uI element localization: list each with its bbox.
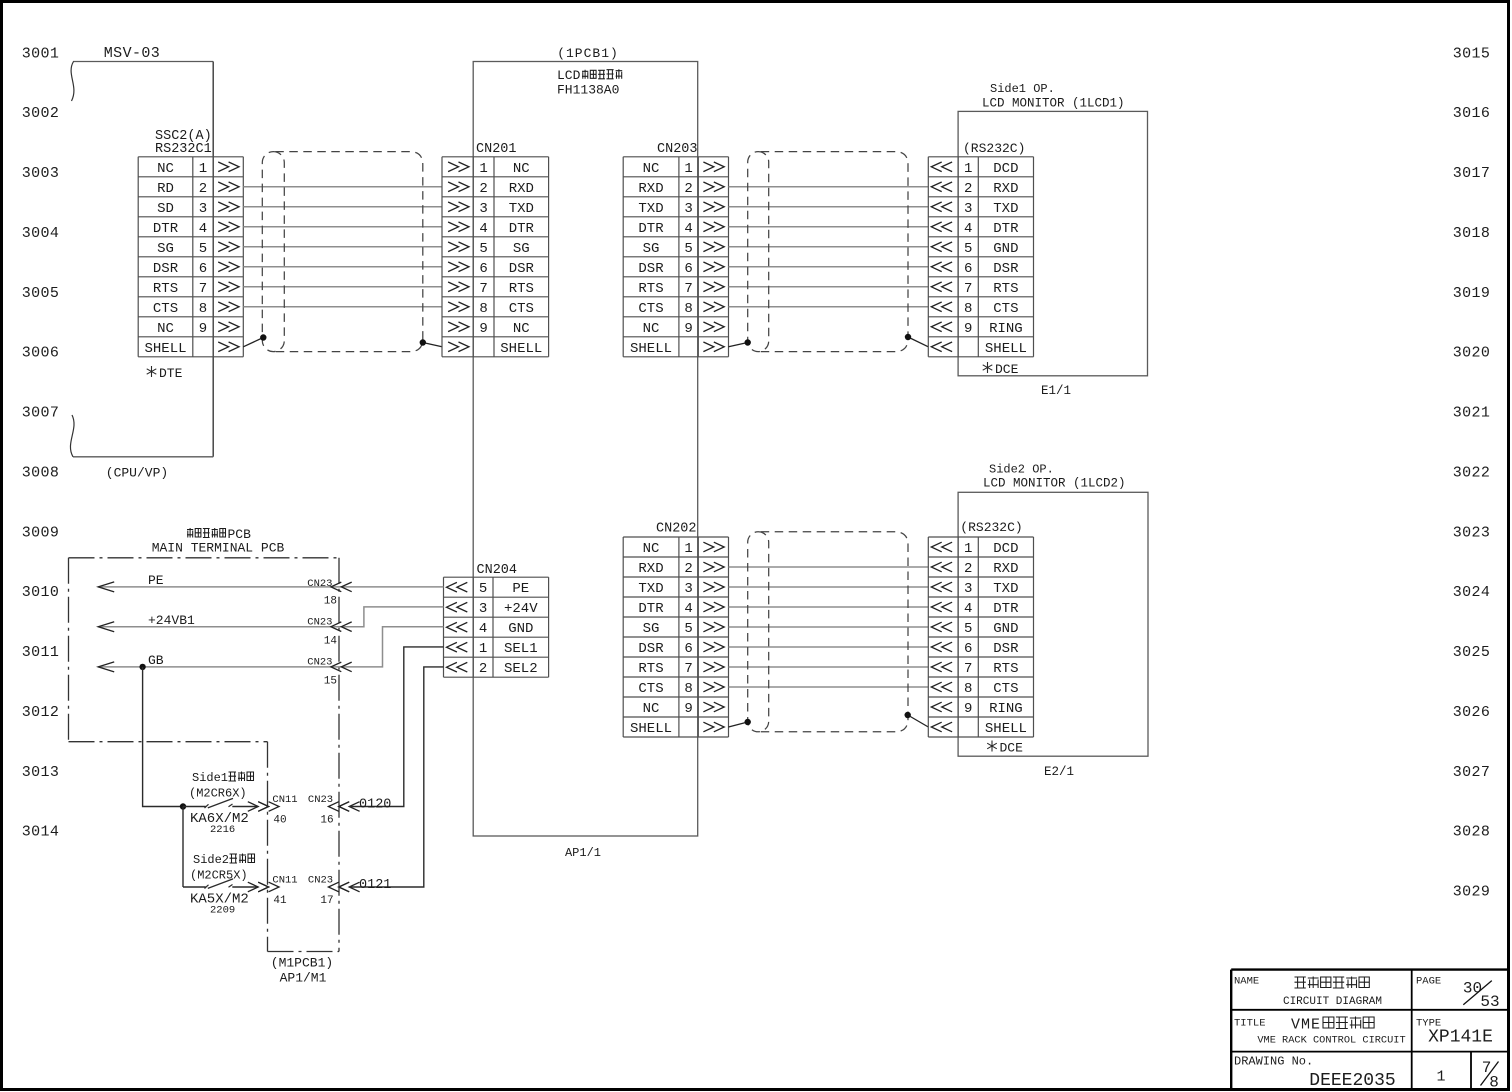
box Side2 OP. LCD MONITOR (1LCD2) (958, 463, 1148, 780)
svg-text:6: 6 (964, 261, 972, 277)
wires SSC2 pins 2-8 to CN201 (243, 187, 442, 307)
svg-text:CN202: CN202 (656, 522, 697, 537)
svg-text:DTR: DTR (153, 221, 179, 237)
svg-text:DCD: DCD (993, 161, 1018, 177)
svg-text:2: 2 (964, 181, 972, 197)
svg-text:NC: NC (513, 161, 530, 177)
svg-text:SG: SG (513, 241, 530, 257)
svg-text:2: 2 (684, 181, 692, 197)
svg-text:TXD: TXD (993, 581, 1018, 597)
svg-text:CN23: CN23 (308, 875, 333, 887)
svg-text:2216: 2216 (210, 824, 235, 836)
svg-text:SHELL: SHELL (144, 341, 186, 357)
wires CN203 pins 2-8 to 1LCD1 RS232C (729, 187, 929, 307)
svg-text:3003: 3003 (22, 165, 60, 182)
svg-text:RTS: RTS (509, 281, 534, 297)
connector CN202 table (623, 522, 728, 738)
svg-text:3: 3 (479, 201, 487, 217)
svg-text:0121: 0121 (359, 878, 391, 893)
svg-text:3002: 3002 (22, 105, 60, 122)
svg-text:DSR: DSR (509, 261, 535, 277)
svg-text:DSR: DSR (993, 261, 1019, 277)
svg-text:9: 9 (964, 701, 972, 717)
svg-text:1: 1 (1436, 1069, 1445, 1086)
svg-text:TITLE: TITLE (1234, 1018, 1266, 1030)
svg-text:3025: 3025 (1453, 644, 1491, 661)
svg-text:SHELL: SHELL (630, 341, 672, 357)
svg-text:TXD: TXD (993, 201, 1018, 217)
svg-text:1: 1 (479, 641, 487, 657)
svg-text:3005: 3005 (22, 285, 60, 302)
svg-text:3017: 3017 (1453, 165, 1491, 182)
svg-text:TXD: TXD (509, 201, 534, 217)
svg-text:MSV-03: MSV-03 (104, 45, 160, 62)
svg-text:17: 17 (320, 895, 333, 907)
svg-text:+24V: +24V (504, 601, 538, 617)
relay contact KA5X/M2 (M2CR5X) Side2 (190, 853, 255, 917)
svg-text:3: 3 (964, 581, 972, 597)
svg-text:CN23: CN23 (307, 657, 332, 669)
shielded cable between SSC2 and CN201 (243, 152, 442, 352)
svg-text:E2/1: E2/1 (1044, 765, 1074, 779)
svg-text:AP1/1: AP1/1 (565, 846, 601, 860)
svg-text:40: 40 (273, 815, 286, 827)
svg-text:2209: 2209 (210, 905, 235, 917)
svg-text:SEL1: SEL1 (504, 641, 538, 657)
label *DCE of 1LCD1 (983, 362, 1019, 377)
left margin zone numbers 3001-3014 (22, 45, 60, 840)
svg-text:3016: 3016 (1453, 105, 1491, 122)
svg-text:NC: NC (643, 701, 660, 717)
svg-text:FH1138A0: FH1138A0 (557, 83, 619, 98)
svg-text:1: 1 (479, 161, 487, 177)
svg-text:0120: 0120 (359, 798, 391, 813)
svg-text:VME: VME (1291, 1017, 1321, 1034)
svg-text:1: 1 (684, 541, 692, 557)
svg-text:3014: 3014 (22, 824, 60, 841)
svg-text:2: 2 (479, 181, 487, 197)
svg-text:3019: 3019 (1453, 285, 1491, 302)
svg-text:53: 53 (1480, 993, 1499, 1011)
svg-text:MAIN TERMINAL PCB: MAIN TERMINAL PCB (152, 541, 285, 556)
svg-text:NC: NC (643, 321, 660, 337)
svg-text:DCE: DCE (995, 362, 1019, 377)
svg-text:CN204: CN204 (477, 563, 518, 578)
svg-text:XP141E: XP141E (1428, 1028, 1493, 1048)
right margin zone numbers 3015-3029 (1453, 45, 1491, 900)
svg-text:3018: 3018 (1453, 225, 1491, 242)
svg-text:SHELL: SHELL (985, 721, 1027, 737)
box MSV-03 (CPU/VP) with break squiggles (70, 45, 213, 481)
svg-text:3027: 3027 (1453, 764, 1491, 781)
svg-text:SHELL: SHELL (500, 341, 542, 357)
svg-text:4: 4 (684, 221, 692, 237)
svg-text:VME RACK CONTROL CIRCUIT: VME RACK CONTROL CIRCUIT (1257, 1035, 1405, 1047)
svg-text:DCE: DCE (1000, 741, 1024, 756)
svg-text:DTR: DTR (993, 601, 1019, 617)
svg-text:9: 9 (964, 321, 972, 337)
svg-text:(1PCB1): (1PCB1) (557, 46, 619, 61)
svg-text:CIRCUIT DIAGRAM: CIRCUIT DIAGRAM (1283, 996, 1382, 1008)
svg-text:3: 3 (684, 581, 692, 597)
svg-text:8: 8 (199, 301, 207, 317)
svg-text:Side1: Side1 (192, 771, 228, 785)
svg-text:3021: 3021 (1453, 405, 1491, 422)
label (M1PCB1) AP1/M1 (271, 956, 333, 986)
svg-text:DEEE2035: DEEE2035 (1309, 1071, 1395, 1091)
svg-text:3013: 3013 (22, 764, 60, 781)
svg-text:3: 3 (964, 201, 972, 217)
svg-text:6: 6 (964, 641, 972, 657)
svg-text:CN11: CN11 (272, 875, 297, 887)
svg-text:4: 4 (964, 221, 972, 237)
svg-text:4: 4 (479, 621, 487, 637)
svg-text:RING: RING (989, 321, 1023, 337)
svg-text:NC: NC (643, 541, 660, 557)
svg-text:5: 5 (479, 581, 487, 597)
svg-text:3020: 3020 (1453, 345, 1491, 362)
svg-text:RXD: RXD (509, 181, 534, 197)
svg-text:6: 6 (684, 641, 692, 657)
svg-text:7: 7 (964, 281, 972, 297)
svg-text:DTR: DTR (509, 221, 535, 237)
svg-text:5: 5 (684, 241, 692, 257)
svg-text:5: 5 (684, 621, 692, 637)
svg-text:3006: 3006 (22, 345, 60, 362)
svg-text:(M2CR6X): (M2CR6X) (189, 787, 247, 801)
svg-text:16: 16 (320, 815, 333, 827)
svg-text:41: 41 (273, 895, 287, 907)
svg-text:3009: 3009 (22, 524, 60, 541)
svg-text:5: 5 (964, 241, 972, 257)
svg-text:8: 8 (684, 681, 692, 697)
svg-text:CN23: CN23 (308, 794, 333, 806)
svg-text:RTS: RTS (153, 281, 178, 297)
svg-text:DTR: DTR (638, 601, 664, 617)
svg-text:30: 30 (1463, 980, 1482, 998)
svg-text:3015: 3015 (1453, 45, 1491, 62)
svg-text:NC: NC (157, 321, 174, 337)
svg-text:Side2: Side2 (193, 853, 229, 867)
svg-text:CTS: CTS (638, 681, 663, 697)
svg-text:7: 7 (479, 281, 487, 297)
box MAIN TERMINAL PCB (chain line) (69, 527, 340, 952)
svg-text:3001: 3001 (22, 45, 60, 62)
svg-text:8: 8 (1489, 1074, 1499, 1092)
svg-text:3029: 3029 (1453, 884, 1491, 901)
svg-text:8: 8 (684, 301, 692, 317)
svg-text:1: 1 (964, 541, 972, 557)
svg-text:3: 3 (199, 201, 207, 217)
svg-text:SD: SD (157, 201, 174, 217)
svg-text:3010: 3010 (22, 584, 60, 601)
relay contact KA6X/M2 (M2CR6X) Side1 (189, 771, 254, 836)
svg-text:RTS: RTS (993, 281, 1018, 297)
svg-text:SHELL: SHELL (985, 341, 1027, 357)
svg-text:DTR: DTR (638, 221, 664, 237)
svg-text:(RS232C): (RS232C) (960, 520, 1022, 535)
svg-text:9: 9 (684, 321, 692, 337)
svg-text:14: 14 (324, 636, 338, 648)
svg-text:3028: 3028 (1453, 824, 1491, 841)
svg-text:CTS: CTS (993, 681, 1018, 697)
svg-text:3: 3 (684, 201, 692, 217)
svg-text:CN203: CN203 (657, 142, 698, 157)
svg-text:AP1/M1: AP1/M1 (280, 971, 327, 986)
svg-text:CN201: CN201 (476, 142, 517, 157)
connector SSC2(A) RS232C1 table pins 1-9 + SHELL (138, 129, 243, 357)
svg-text:Side2 OP.: Side2 OP. (989, 463, 1054, 477)
svg-text:3008: 3008 (22, 464, 60, 481)
svg-text:8: 8 (479, 301, 487, 317)
wires CN202 pins 2-8 to 1LCD2 RS232C (729, 567, 929, 687)
svg-text:LCD: LCD (557, 68, 581, 83)
label *DTE (147, 366, 183, 381)
svg-text:5: 5 (479, 241, 487, 257)
node GB: wire CN204-4 GND step down to CN23-15 and arrow (98, 627, 443, 688)
svg-text:7: 7 (684, 281, 692, 297)
svg-text:8: 8 (964, 301, 972, 317)
svg-text:CN23: CN23 (307, 617, 332, 629)
node PE: wire CN204-5 to CN23-18 and arrow (98, 573, 443, 608)
svg-text:4: 4 (199, 221, 207, 237)
svg-text:E1/1: E1/1 (1041, 384, 1071, 398)
svg-text:NC: NC (157, 161, 174, 177)
svg-text:2: 2 (684, 561, 692, 577)
svg-text:1: 1 (684, 161, 692, 177)
svg-text:RD: RD (157, 181, 174, 197)
node +24VB1: wire CN204-3 step down to CN23-14 and arrow (98, 607, 443, 648)
svg-text:GND: GND (993, 241, 1018, 257)
svg-text:RXD: RXD (638, 181, 663, 197)
svg-text:(RS232C): (RS232C) (963, 141, 1025, 156)
svg-text:6: 6 (684, 261, 692, 277)
svg-text:DTR: DTR (993, 221, 1019, 237)
svg-text:5: 5 (964, 621, 972, 637)
svg-text:2: 2 (964, 561, 972, 577)
svg-text:3026: 3026 (1453, 704, 1491, 721)
svg-text:2: 2 (199, 181, 207, 197)
svg-text:SG: SG (643, 621, 660, 637)
svg-text:GND: GND (993, 621, 1018, 637)
svg-text:RTS: RTS (993, 661, 1018, 677)
svg-text:SHELL: SHELL (630, 721, 672, 737)
svg-text:3: 3 (479, 601, 487, 617)
svg-text:(M2CR5X): (M2CR5X) (190, 869, 248, 883)
svg-text:CN23: CN23 (307, 578, 332, 590)
label *DCE of 1LCD2 (987, 741, 1023, 756)
svg-text:4: 4 (964, 601, 972, 617)
svg-text:3011: 3011 (22, 644, 60, 661)
svg-text:DSR: DSR (153, 261, 179, 277)
connector CN204 table (444, 563, 549, 677)
svg-text:GND: GND (508, 621, 533, 637)
svg-text:DRAWING No.: DRAWING No. (1234, 1055, 1313, 1069)
svg-text:7: 7 (684, 661, 692, 677)
svg-text:GB: GB (148, 653, 164, 668)
svg-text:3007: 3007 (22, 405, 60, 422)
svg-text:PAGE: PAGE (1416, 976, 1441, 988)
svg-text:9: 9 (199, 321, 207, 337)
svg-text:SG: SG (157, 241, 174, 257)
svg-text:LCD MONITOR (1LCD1): LCD MONITOR (1LCD1) (982, 97, 1125, 111)
svg-text:1: 1 (199, 161, 207, 177)
svg-text:RTS: RTS (638, 661, 663, 677)
svg-text:NC: NC (643, 161, 660, 177)
svg-text:7: 7 (199, 281, 207, 297)
svg-text:RXD: RXD (993, 561, 1018, 577)
svg-text:2: 2 (479, 661, 487, 677)
svg-text:3023: 3023 (1453, 524, 1491, 541)
svg-text:CN11: CN11 (272, 794, 297, 806)
svg-text:DSR: DSR (638, 261, 664, 277)
svg-text:DCD: DCD (993, 541, 1018, 557)
svg-text:SG: SG (643, 241, 660, 257)
svg-text:4: 4 (479, 221, 487, 237)
svg-text:1: 1 (964, 161, 972, 177)
svg-text:7: 7 (964, 661, 972, 677)
svg-text:TXD: TXD (638, 581, 663, 597)
svg-text:Side1 OP.: Side1 OP. (990, 82, 1055, 96)
svg-text:3022: 3022 (1453, 464, 1491, 481)
svg-text:4: 4 (684, 601, 692, 617)
svg-text:CTS: CTS (638, 301, 663, 317)
connector CN203 table (623, 142, 728, 357)
box (1PCB1) LCD monitor board FH1138A0 (473, 46, 698, 860)
svg-text:18: 18 (324, 596, 337, 608)
svg-text:CTS: CTS (993, 301, 1018, 317)
svg-text:RXD: RXD (638, 561, 663, 577)
svg-text:CTS: CTS (153, 301, 178, 317)
svg-text:LCD MONITOR (1LCD2): LCD MONITOR (1LCD2) (983, 477, 1126, 491)
svg-text:TXD: TXD (638, 201, 663, 217)
svg-text:DSR: DSR (638, 641, 664, 657)
connector (RS232C) table of 1LCD2 (928, 537, 1033, 737)
svg-text:DTE: DTE (159, 366, 183, 381)
svg-text:RING: RING (989, 701, 1023, 717)
box Side1 OP. LCD MONITOR (1LCD1) (958, 82, 1147, 398)
connector CN201 table (442, 142, 549, 357)
svg-text:6: 6 (479, 261, 487, 277)
svg-text:15: 15 (324, 676, 337, 688)
wire 0120 from CN23-16 up to CN204 SEL1 (350, 647, 444, 813)
svg-text:3012: 3012 (22, 704, 60, 721)
wire 0121 from CN23-17 up to CN204 SEL2 (350, 667, 444, 893)
svg-text:5: 5 (199, 241, 207, 257)
svg-text:DSR: DSR (993, 641, 1019, 657)
svg-text:3004: 3004 (22, 225, 60, 242)
title block texts (1234, 976, 1500, 1092)
shielded cable between CN203 and 1LCD1 (729, 152, 929, 352)
svg-text:NAME: NAME (1234, 976, 1259, 988)
svg-text:RTS: RTS (638, 281, 663, 297)
svg-text:PE: PE (148, 573, 164, 588)
svg-text:RXD: RXD (993, 181, 1018, 197)
svg-text:+24VB1: +24VB1 (148, 613, 195, 628)
svg-text:3024: 3024 (1453, 584, 1491, 601)
svg-text:RS232C1: RS232C1 (155, 142, 212, 157)
svg-text:9: 9 (684, 701, 692, 717)
svg-text:CTS: CTS (509, 301, 534, 317)
svg-text:8: 8 (964, 681, 972, 697)
svg-text:PE: PE (512, 581, 529, 597)
wire GB down to relay contacts (143, 667, 187, 887)
svg-text:(M1PCB1): (M1PCB1) (271, 956, 333, 971)
connector (RS232C) table of 1LCD1 (928, 157, 1033, 357)
title block (1231, 970, 1509, 1090)
svg-text:NC: NC (513, 321, 530, 337)
svg-text:SEL2: SEL2 (504, 661, 538, 677)
svg-text:6: 6 (199, 261, 207, 277)
svg-text:9: 9 (479, 321, 487, 337)
svg-text:(CPU/VP): (CPU/VP) (106, 466, 168, 481)
shielded cable between CN202 and 1LCD2 (729, 532, 929, 732)
